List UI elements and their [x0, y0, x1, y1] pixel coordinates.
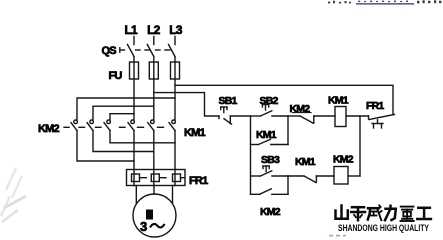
wire FR1 to motor 2 [153, 186, 155, 195]
contactor KM1 aux NO contact branch [251, 116, 289, 145]
switch QS pole 1 blade [128, 45, 135, 57]
contactor KM1 main contact 1 [128, 120, 134, 131]
wire QS to FU pole2 [153, 57, 155, 63]
motor M 3-phase circle [133, 194, 176, 237]
svg-text:KM2: KM2 [260, 206, 281, 218]
fuse FU2 [149, 62, 158, 79]
wire L1 drop to QS [133, 37, 135, 45]
switch QS linkage dashed line [120, 48, 170, 52]
contactor KM2 main contact 2 [87, 120, 93, 131]
contactor KM2 main contact 1 [71, 120, 77, 131]
wire KM1 output 3 to FR1 [174, 131, 176, 170]
watermark top clipped text row [328, 0, 441, 3]
logo char 力 [385, 206, 396, 220]
svg-text:KM1: KM1 [328, 95, 349, 107]
KM2 main contacts linkage dashed [64, 126, 101, 128]
svg-text:KM1: KM1 [256, 129, 277, 141]
contactor KM1 main contact 2 [148, 120, 154, 131]
fuse FU3 [171, 62, 180, 79]
KM1 main contacts linkage dashed [120, 126, 164, 128]
svg-text:KM1: KM1 [184, 127, 206, 139]
contactor KM2 aux NO contact branch [251, 176, 289, 194]
logo char 东 [351, 207, 365, 220]
svg-text:KM2: KM2 [333, 154, 354, 166]
svg-text:FU: FU [109, 70, 123, 82]
contactor KM1 NC interlock contact [288, 176, 334, 183]
pushbutton SB1 actuator [221, 107, 227, 113]
pushbutton SB3 NO contact [251, 171, 289, 176]
contactor KM2 NC interlock contact [288, 116, 335, 123]
pushbutton SB2 NO contact [251, 111, 289, 116]
watermark link underline [356, 3, 414, 5]
wire L2 drop to QS [153, 37, 155, 45]
logo char 重 [401, 207, 414, 221]
contactor KM2 coil [334, 167, 348, 185]
switch QS pole 3 blade [169, 45, 176, 57]
wire right bus vertical [359, 116, 361, 176]
wire phase B vertical to KM1 pole2 [153, 79, 155, 120]
wire KM1 output 1 to FR1 [133, 131, 135, 170]
wire KM1 output 2 to FR1 [153, 131, 155, 170]
wire KM1 coil to FR1 contact [346, 115, 369, 117]
wire KM2 input from phase B [93, 106, 154, 119]
thermal relay FR1 NC contact [369, 114, 395, 128]
svg-text:L3: L3 [169, 23, 183, 37]
wire KM2 input from phase A [110, 114, 134, 120]
logo char 威 [368, 205, 382, 220]
wire KM2 coil to right bus [348, 175, 360, 177]
wire branch drop vertical [250, 116, 252, 194]
FR1 heater element 1 [132, 170, 147, 186]
logo 山东威力重工 (drawn strokes) [336, 205, 431, 221]
logo char 山 [336, 206, 348, 219]
wire phase A vertical to KM1 pole1 [133, 79, 135, 120]
pushbutton SB1 NC contact [219, 116, 232, 124]
watermark left edge faint marks [1, 168, 26, 222]
pushbutton SB2 actuator [262, 105, 268, 111]
wire QS to FU pole3 [174, 57, 176, 63]
svg-text:L2: L2 [147, 23, 161, 37]
svg-text:SB3: SB3 [261, 154, 280, 166]
wire KM2 output 1 to KM1 output 1 [77, 131, 134, 162]
wire phase C vertical to KM1 pole3 [174, 79, 176, 120]
svg-text:KM2: KM2 [290, 103, 311, 115]
svg-text:KM2: KM2 [38, 123, 60, 135]
wire FR1 to motor 3 [172, 186, 174, 204]
FR1 heater element 2 [151, 170, 166, 186]
pushbutton SB3 actuator [263, 166, 269, 172]
wire SB1 to junction [230, 115, 250, 117]
contactor KM2 main contact 3 [104, 120, 110, 131]
wire KM2 input from phase C [77, 98, 175, 120]
wire L3 drop to QS [174, 37, 176, 45]
fuse FU1 [130, 62, 139, 79]
wire control top rail from phase C [175, 85, 393, 115]
svg-text:SB1: SB1 [219, 95, 238, 107]
contactor KM1 coil [335, 107, 346, 127]
watermark bottom faint blue dashes [329, 235, 346, 237]
wire KM2 output 2 to KM1 output 2 [93, 131, 154, 152]
svg-text:FR1: FR1 [189, 175, 208, 187]
svg-text:SHANDONG HIGH QUALITY: SHANDONG HIGH QUALITY [338, 223, 429, 233]
svg-text:3: 3 [140, 219, 147, 234]
wire KM2 output 3 to KM1 output 3 [110, 131, 175, 143]
wire QS to FU pole1 [133, 57, 135, 63]
wire FR1 to motor 1 [135, 186, 137, 204]
wire control left rail from phase B [154, 93, 219, 116]
svg-text:FR1: FR1 [366, 100, 384, 112]
svg-text:L1: L1 [124, 23, 138, 37]
FR1 heater element 3 [173, 170, 184, 186]
thermal relay FR1 box [127, 170, 186, 186]
switch QS pole 2 blade [147, 45, 154, 57]
svg-text:KM1: KM1 [295, 156, 316, 168]
svg-text:QS: QS [102, 45, 117, 57]
motor terminal block mark [146, 210, 153, 220]
contactor KM1 main contact 3 [169, 120, 175, 131]
logo char 工 [417, 208, 431, 219]
